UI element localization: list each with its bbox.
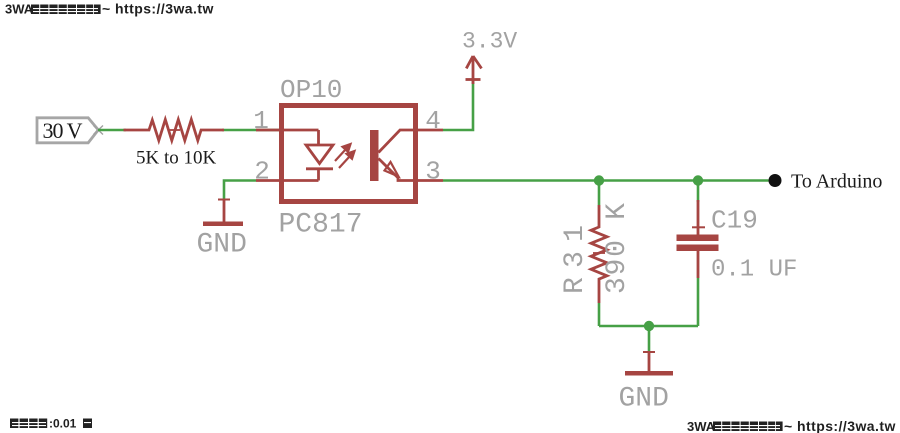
- pin 1 stub and label: [253, 106, 281, 136]
- resistor R31 390K vertical: [560, 203, 633, 303]
- phototransistor inside U1: [370, 130, 416, 181]
- junction node B (C19 tap): [693, 175, 703, 185]
- wire net N4: pin 3 to output: [443, 179, 769, 182]
- wire net N3: pin 4 to 3.3V: [443, 80, 473, 131]
- wire net N5: junction A down to R31: [598, 181, 601, 206]
- supply 3.3V arrow: [466, 56, 482, 84]
- capacitor C19 0.1 UF: [677, 200, 798, 284]
- wire net N10: rail down to GND: [648, 326, 651, 352]
- pin 2 stub and label: [254, 157, 281, 187]
- svg-text:390 K: 390 K: [602, 203, 633, 294]
- svg-text:3WA: 3WA: [5, 2, 34, 17]
- svg-text::0.01: :0.01: [49, 417, 77, 431]
- svg-text:To Arduino: To Arduino: [791, 171, 882, 193]
- wire net N7: junction B down to C19: [697, 181, 700, 203]
- svg-text:3: 3: [425, 157, 441, 187]
- svg-text:~ https://3wa.tw: ~ https://3wa.tw: [784, 418, 896, 433]
- resistor R (5K to 10K) horizontal: [124, 120, 225, 169]
- svg-text:GND: GND: [197, 230, 247, 261]
- svg-text:R31: R31: [560, 225, 591, 294]
- LED emission arrows: [335, 144, 355, 168]
- LED inside U1: [282, 130, 334, 181]
- svg-text:GND: GND: [619, 384, 669, 415]
- svg-text:0.1 UF: 0.1 UF: [711, 257, 797, 284]
- wire net N1: 30V flag to pin 1: [98, 129, 281, 132]
- svg-text:2: 2: [254, 157, 270, 187]
- svg-text:30 V: 30 V: [43, 118, 83, 143]
- wire net N9: bottom rail: [599, 325, 698, 328]
- svg-text:5K to 10K: 5K to 10K: [136, 148, 217, 169]
- svg-text:C19: C19: [711, 206, 758, 236]
- svg-text:1: 1: [253, 106, 269, 136]
- wire net N8: C19 to bottom rail: [697, 278, 700, 326]
- optocoupler U1 OP10 body: [279, 75, 416, 241]
- watermark top-left: [5, 1, 214, 17]
- pin 3 stub and label: [416, 157, 443, 187]
- label 3.3V: [462, 29, 517, 55]
- wire net N2: pin 2 down to GND: [224, 181, 256, 200]
- svg-text:OP10: OP10: [280, 75, 342, 105]
- svg-text:4: 4: [425, 106, 441, 136]
- watermark bottom-left: [10, 417, 92, 431]
- svg-text:PC817: PC817: [279, 210, 363, 241]
- watermark bottom-right: [687, 418, 896, 433]
- ground GND (right): [619, 352, 674, 415]
- output terminal dot: [769, 174, 782, 187]
- svg-text:~ https://3wa.tw: ~ https://3wa.tw: [102, 1, 214, 17]
- pin 4 stub and label: [416, 106, 443, 136]
- svg-text:3.3V: 3.3V: [462, 29, 517, 55]
- junction node A (R31 tap): [594, 175, 604, 185]
- junction node C (rail to ground): [644, 321, 654, 331]
- svg-text:3WA: 3WA: [687, 419, 716, 433]
- ground GND (left): [197, 200, 247, 261]
- node 30V supply flag: [37, 118, 103, 143]
- wire net N6: R31 to bottom rail: [598, 303, 601, 326]
